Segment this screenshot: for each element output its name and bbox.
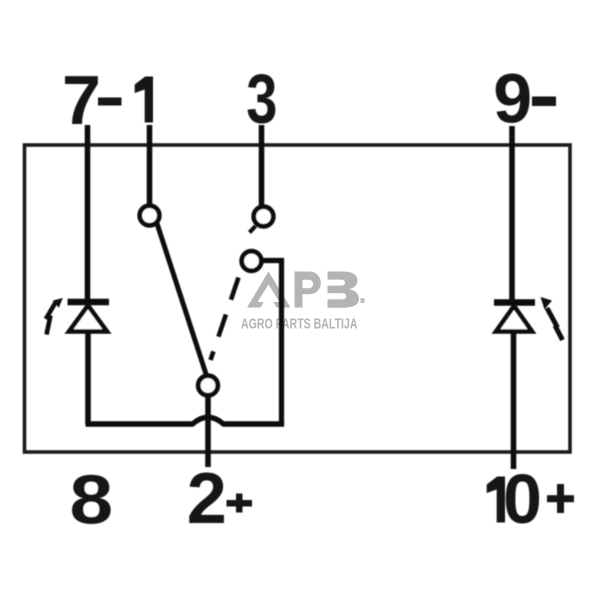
- svg-text:0: 0: [503, 460, 542, 538]
- wire pin 9 to diode D2 cathode: [509, 126, 515, 301]
- svg-text:9: 9: [493, 60, 532, 138]
- pin label 7-1: [62, 61, 153, 139]
- lightning arrow left: [46, 298, 63, 335]
- watermark logo AP3: [247, 272, 365, 308]
- wire diode D1 anode to bottom rail: [85, 332, 91, 425]
- svg-text:3: 3: [246, 61, 277, 138]
- lightning arrow right: [541, 297, 563, 340]
- pin label 10+: [487, 460, 574, 538]
- pin label 2+: [187, 459, 252, 539]
- switch arm solid position 1-2: [157, 224, 207, 376]
- svg-text:8: 8: [70, 460, 114, 538]
- bottom rail wire with hop over pin-2 wire: [86, 417, 285, 424]
- svg-text:2: 2: [187, 459, 227, 539]
- wire common contact to pin 2: [205, 396, 211, 468]
- diode D2 (right LED): [494, 303, 535, 332]
- pin label 9-: [493, 60, 556, 138]
- contact circle pin 1: [140, 206, 160, 226]
- contact circle pin 3: [254, 207, 274, 227]
- svg-text:AGRO PARTS BALTIJA: AGRO PARTS BALTIJA: [241, 317, 358, 333]
- component outline box: [25, 145, 571, 452]
- wire diode D2 anode to pin 10: [511, 332, 517, 470]
- wire pin 3 to contact: [259, 125, 265, 206]
- diode D1 (left LED): [68, 302, 110, 332]
- wire pin 7 to diode D1 cathode: [85, 125, 91, 301]
- switch arm dashed position 2-3: [211, 278, 239, 361]
- wire pin 1 to contact: [147, 125, 153, 205]
- common contact circle: [198, 376, 218, 396]
- contact tail pin 3: [250, 226, 256, 233]
- contact circle aux (position 2): [242, 251, 262, 271]
- wire aux contact to bottom rail: [260, 261, 282, 425]
- svg-text:7: 7: [62, 61, 101, 139]
